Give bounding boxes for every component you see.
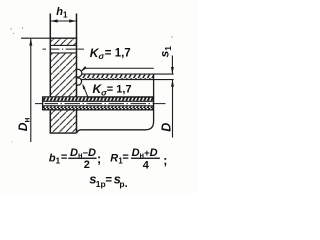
dimension D: line (shared with s1 lower) bbox=[172, 80, 174, 138]
shell wall: hatched section bbox=[82, 75, 154, 80]
bolt hole centerline (dash-dot) bbox=[43, 48, 85, 50]
svg-text:2: 2 bbox=[84, 159, 90, 171]
flange right edge (lower) bbox=[76, 110, 78, 133]
svg-text:= 1,7: = 1,7 bbox=[107, 84, 132, 96]
dimension D / s1: up arrow bbox=[171, 80, 174, 87]
tube: inner bottom line bbox=[43, 105, 154, 107]
tube: inner top line bbox=[43, 100, 154, 102]
tube-sheet flange section: main hatched body bbox=[50, 53, 76, 96]
K-sigma lower label leader bbox=[83, 85, 154, 97]
shell wall: bottom surface + s1 extension bbox=[81, 79, 173, 81]
dimension Dn: line bbox=[30, 39, 32, 142]
flange left edge (lower) bbox=[49, 110, 51, 133]
svg-text:=: = bbox=[105, 174, 112, 186]
tube: outer bottom line bbox=[43, 109, 154, 111]
dimension s1: upper segment bbox=[171, 56, 173, 74]
weld bead lower circle bbox=[74, 78, 81, 85]
tube-sheet flange section: lower hatched body bbox=[50, 110, 76, 133]
dimension s1: down arrow bbox=[171, 67, 174, 74]
dimension h1: left arrow bbox=[50, 19, 57, 22]
body outline right edge with rounded bottom corner bbox=[77, 74, 154, 133]
svg-text:;: ; bbox=[163, 153, 167, 167]
dimension h1: right arrow bbox=[69, 19, 76, 22]
svg-text:Dн+D: Dн+D bbox=[132, 147, 158, 160]
tube: outer top line bbox=[43, 96, 154, 98]
flange edge through weld bbox=[76, 70, 78, 86]
tube centerline (dash-dot) bbox=[35, 103, 166, 105]
svg-text:D: D bbox=[160, 123, 174, 132]
scan noise specks bbox=[10, 27, 172, 142]
K-sigma upper arrowhead bbox=[81, 66, 86, 70]
flange right edge (upper) bbox=[76, 14, 78, 97]
flange bottom edge bbox=[50, 132, 77, 134]
tube: left end bbox=[42, 96, 44, 110]
svg-text:= 1,7: = 1,7 bbox=[105, 47, 131, 59]
svg-text:4: 4 bbox=[143, 160, 150, 172]
dimension h1: dim line bbox=[50, 20, 76, 22]
K-sigma lower arrowhead bbox=[82, 84, 85, 90]
flange top edge bbox=[50, 37, 78, 39]
bolt hole channel lower line bbox=[50, 52, 76, 54]
formula 1 bar bbox=[68, 158, 96, 159]
flange left edge (upper) bbox=[49, 14, 51, 97]
tube: upper wall hatched bbox=[43, 97, 154, 101]
svg-text:=: = bbox=[61, 151, 67, 163]
svg-text:р.: р. bbox=[119, 178, 127, 190]
dimension Dn: up arrow bbox=[29, 38, 32, 45]
svg-text:=: = bbox=[122, 151, 128, 163]
shell wall: top surface + s1 extension bbox=[81, 73, 173, 75]
weld bead upper circle bbox=[74, 69, 82, 85]
formula 2 bar bbox=[131, 158, 160, 159]
K-sigma upper label leader bbox=[82, 68, 154, 71]
tube: lower wall hatched bbox=[43, 106, 154, 109]
bolt hole channel upper line bbox=[50, 44, 76, 46]
tube-sheet flange section: top hatched band bbox=[50, 39, 76, 46]
svg-text:Dн−D: Dн−D bbox=[70, 147, 96, 160]
svg-text:;: ; bbox=[97, 152, 101, 166]
Dn extension line bbox=[21, 37, 50, 39]
svg-text:1р: 1р bbox=[96, 179, 106, 189]
